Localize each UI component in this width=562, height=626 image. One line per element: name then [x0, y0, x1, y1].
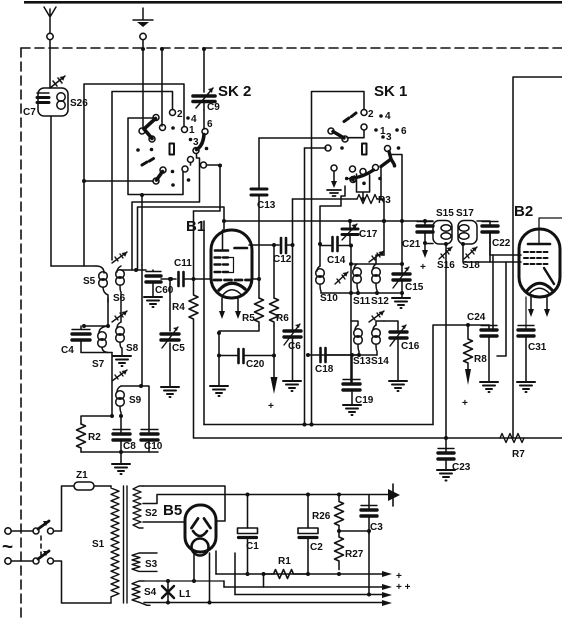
svg-text:S12: S12: [371, 296, 389, 307]
tube B1 envelope: [211, 230, 252, 298]
svg-text:R7: R7: [512, 449, 525, 460]
bottom rail R2/C8/C10: [81, 451, 158, 453]
wire long vertical down to R2/C8 node: [111, 353, 113, 417]
SK2 contact 1: [182, 127, 188, 133]
resistor R7: [500, 434, 524, 443]
switch gang dashed link: [40, 536, 42, 556]
wire S14 to C16: [384, 321, 398, 330]
B1 outer box bottom rail: [194, 437, 562, 439]
svg-text:2: 2: [177, 109, 183, 120]
capacitor C10: [141, 434, 158, 440]
ground under C23: [437, 470, 455, 481]
wire SK2 lower bus: [141, 195, 143, 265]
antenna coil box C7/S26: [38, 88, 68, 116]
wire S2 bottom to anode 2: [143, 521, 185, 523]
wire S6 top node to C60: [121, 269, 146, 271]
capacitor C7 plates: [37, 98, 49, 103]
wire S13 S14 tops: [351, 321, 384, 325]
B2 heater leads with arrows: [531, 297, 547, 310]
trimmer arrow C17: [342, 224, 357, 240]
trimmer arrow S18: [464, 247, 477, 259]
wire C11 to B1 grid: [184, 278, 212, 280]
secondary S3: [132, 553, 157, 571]
B2 diode plate diagonal: [544, 268, 554, 284]
svg-text:R5: R5: [242, 313, 255, 324]
B1 grids (dashed electrodes): [215, 258, 229, 273]
coil top rail S11 S12 C15: [351, 263, 402, 265]
svg-text:SK 2: SK 2: [218, 83, 251, 100]
antenna terminal: [47, 33, 53, 39]
svg-text:S26: S26: [70, 98, 88, 109]
svg-text:C12: C12: [273, 254, 292, 265]
trimmer capacitor C15: [401, 221, 403, 272]
SK1 contact 2: [361, 110, 367, 116]
ground under C8: [120, 452, 122, 464]
node: [218, 164, 222, 168]
B1 grid cap lead: [223, 221, 225, 230]
node S17 bottom: [461, 242, 465, 246]
wire SK1 top feed to contact 2: [312, 92, 365, 425]
svg-text:R2: R2: [88, 432, 101, 443]
resistor R1: [264, 570, 309, 579]
wire rail to C15: [377, 292, 402, 294]
wire R6 bottom to arrow: [273, 326, 275, 378]
resistor R5: [255, 298, 264, 326]
coil S10: [316, 266, 325, 293]
node C14 left: [318, 242, 322, 246]
secondary S2 (HT): [133, 486, 143, 528]
wire R26/R27 node to C3: [339, 530, 369, 532]
capacitor C60: [146, 276, 161, 282]
ground under C19: [343, 405, 361, 415]
B5 filament leads: [194, 553, 210, 603]
svg-text:B5: B5: [163, 502, 182, 519]
ground under C31: [517, 382, 535, 392]
B1 heater leads with arrows: [222, 298, 238, 312]
svg-text:S5: S5: [83, 276, 96, 287]
trimmer arrow above S14: [369, 311, 384, 322]
capacitor C20: [219, 355, 237, 357]
node: [106, 324, 110, 328]
svg-text:2: 2: [368, 109, 374, 120]
trimmer capacitor C16: [390, 332, 407, 338]
wire S10 feed: [319, 244, 321, 266]
svg-text:6: 6: [401, 126, 407, 137]
wire contact3 stub: [190, 163, 192, 166]
wire R3 right to rail and S12: [383, 199, 385, 255]
svg-text:+: +: [462, 398, 468, 409]
S13/S14 bottom rail: [321, 354, 377, 356]
SK1 left wiper: [333, 132, 344, 139]
coil S14: [372, 325, 381, 355]
resistor R26: [335, 495, 344, 532]
svg-text:C2: C2: [310, 542, 323, 553]
trimmer capacitor C5: [169, 279, 171, 386]
capacitor C8: [113, 434, 130, 440]
capacitor C31: [518, 330, 534, 336]
svg-text:S1: S1: [92, 539, 105, 550]
wire C22 bottom to B2: [490, 233, 521, 255]
ground under C60: [144, 297, 162, 307]
svg-text:S4: S4: [144, 587, 157, 598]
B2 grid dashes: [524, 252, 548, 264]
svg-text:R8: R8: [474, 354, 487, 365]
wire S2 top to anode 1: [143, 486, 225, 521]
node: [169, 277, 173, 281]
output stage box: [513, 77, 562, 438]
wire left vertical to lower wiper: [84, 180, 153, 182]
capacitor C12: [281, 238, 286, 253]
SK1 right wiper Y: [381, 152, 394, 167]
svg-text:S9: S9: [129, 395, 142, 406]
trimmer arrow S16: [439, 247, 452, 259]
node C17 bottom: [349, 244, 353, 248]
coil S8: [116, 322, 125, 355]
wire C4 top rail: [84, 325, 108, 327]
wire C20 left node down to ground: [218, 355, 220, 385]
wire switch to transformer top: [54, 486, 75, 531]
wire R5 top: [258, 279, 260, 298]
node + arrow under C21: [423, 241, 427, 245]
svg-text:Z1: Z1: [76, 470, 88, 481]
B2 anode bar: [528, 243, 550, 246]
B2 cathode lead to C31: [525, 297, 527, 329]
node: [192, 277, 196, 281]
ground under C15: [401, 293, 403, 297]
S10/S11 bottom rail: [321, 292, 377, 294]
node on dashed rail: [160, 47, 164, 51]
svg-text:C10: C10: [144, 441, 163, 452]
main HF rail: [224, 220, 425, 222]
svg-text:S13: S13: [353, 356, 371, 367]
trimmer arrow right of S10: [335, 272, 348, 284]
trimmer arrow above S9: [112, 370, 127, 381]
svg-text:+: +: [420, 262, 426, 273]
svg-text:C1: C1: [246, 541, 259, 552]
ground under C5: [161, 387, 179, 397]
SK1 contact dot 1: [374, 128, 378, 132]
node: [139, 384, 143, 388]
wire to SK2 wiper: [161, 49, 163, 126]
svg-text:C24: C24: [467, 312, 486, 323]
wire earth terminal to dashed rail: [142, 40, 144, 49]
svg-text:~: ~: [2, 537, 13, 558]
wire C7 box down to S5: [50, 116, 52, 266]
mains switch upper: [33, 528, 39, 534]
node: [82, 179, 86, 183]
wire C18 right: [326, 354, 360, 356]
B5 filament arc: [193, 531, 207, 536]
resistor R6: [270, 298, 279, 326]
SK2 wiper blade lower: [157, 172, 163, 181]
coil S9: [116, 386, 125, 416]
svg-text:S3: S3: [145, 559, 158, 570]
node on dashed rail: [202, 47, 206, 51]
B5 anode diagonals: [192, 519, 211, 529]
SK2 contact dot: [205, 147, 209, 151]
trimmer arrow above S12: [369, 251, 384, 262]
tube B2 envelope: [519, 229, 560, 297]
capacitor C11: [179, 272, 184, 286]
B1 inner screen loop: [229, 258, 234, 273]
wire R6 top: [273, 245, 275, 298]
SK1 contact dot 3: [381, 135, 385, 139]
SK2 wiper blade right: [197, 135, 205, 150]
svg-text:R4: R4: [172, 302, 185, 313]
SK2 contact dot: [171, 126, 175, 130]
coil S11: [353, 264, 362, 293]
wire SK1 left contact to bus: [305, 147, 327, 149]
wire S12 trimmer stub: [376, 255, 384, 264]
rail heater1: [235, 594, 382, 596]
svg-text:C23: C23: [452, 462, 471, 473]
capacitor C22: [482, 226, 498, 232]
SK1 lower wiper arc: [354, 170, 374, 178]
svg-text:SK 1: SK 1: [374, 83, 407, 100]
SK2 contact dot 4: [186, 116, 190, 120]
svg-text:C7: C7: [23, 107, 36, 118]
wire antenna to C7 box: [49, 40, 51, 88]
svg-text:C8: C8: [123, 441, 136, 452]
B1 cathode arc: [219, 283, 245, 290]
resistor R27: [335, 531, 344, 570]
capacitor C24: [488, 325, 490, 329]
ground under C16: [389, 381, 407, 391]
node R26/R27: [337, 529, 341, 533]
capacitor C17: [349, 221, 351, 228]
svg-text:6: 6: [207, 119, 213, 130]
wire terminal to switch: [11, 530, 33, 532]
capacitor C2 (electrolytic): [307, 495, 309, 529]
SK1 dashed wiper mark: [344, 113, 356, 122]
wire filament net to ++ rail: [223, 581, 225, 587]
wire contact to wiper: [347, 130, 364, 138]
svg-text:R6: R6: [276, 313, 289, 324]
svg-text:C17: C17: [359, 229, 378, 240]
B1 anode bars: [215, 248, 247, 251]
svg-text:C21: C21: [402, 239, 421, 250]
capacitor C21: [424, 221, 426, 225]
capacitor C19: [351, 355, 353, 383]
wire IF bottom to rail: [445, 244, 447, 438]
svg-text:C60: C60: [155, 285, 174, 296]
SK2 contact: [188, 157, 194, 163]
trimmer arrow through C9: [196, 88, 213, 108]
svg-text:R26: R26: [312, 511, 331, 522]
lamp L1 riser: [167, 581, 169, 603]
ground under C24: [480, 382, 498, 392]
svg-text:B2: B2: [514, 203, 533, 220]
coil S13: [354, 325, 363, 355]
svg-text:S7: S7: [92, 359, 105, 370]
SK1 contact right: [385, 146, 391, 152]
wire C13 top to SK1: [259, 137, 341, 139]
SK2 index key: [170, 144, 175, 155]
svg-text:S17: S17: [456, 208, 474, 219]
svg-text:C3: C3: [370, 522, 383, 533]
svg-text:+: +: [268, 401, 274, 412]
capacitor C14: [320, 245, 331, 247]
wire tap to heater1 rail: [234, 553, 236, 595]
IF transformer secondary S17: [458, 221, 477, 245]
svg-text:S14: S14: [371, 356, 389, 367]
wire switch to transformer bottom: [54, 561, 112, 603]
node C5 top: [168, 277, 172, 281]
svg-text:S8: S8: [126, 343, 139, 354]
rail heater2: [144, 602, 382, 604]
SK2 contact 6: [202, 129, 208, 135]
B2 cathode arc: [526, 283, 553, 292]
wire wiper to C15 column: [390, 155, 402, 222]
wire B1 grid line: [252, 278, 259, 280]
HT rail to arrow: [248, 494, 389, 496]
ground (aerial earth): [133, 8, 153, 27]
wire bus down to B1 box rail: [304, 148, 306, 425]
wire R5 bottom loop to C20 node: [219, 326, 259, 355]
SK2 contact dots lower: [171, 170, 175, 174]
coil S12: [372, 264, 381, 293]
coil S5: [51, 266, 108, 302]
wire SK2 outer loop to contact 2: [112, 92, 173, 261]
svg-text:C31: C31: [528, 342, 547, 353]
wire C3 down to rail3: [368, 531, 370, 595]
SK2 contact dots mid: [136, 148, 140, 152]
svg-text:+: +: [396, 571, 402, 582]
B5 filament circle: [192, 539, 209, 556]
fuse Z1: [74, 482, 94, 490]
svg-text:C4: C4: [61, 345, 74, 356]
capacitor C23: [445, 438, 447, 452]
arrow under R8: [465, 369, 471, 385]
transformer S1 primary winding: [111, 486, 119, 603]
B1 grid cap interior lead: [222, 230, 224, 249]
rail +: [216, 573, 382, 575]
wire wiper tail to bus: [132, 154, 200, 271]
node on dashed rail: [141, 47, 145, 51]
B1 stage outer box with resistor R4: [189, 211, 198, 438]
svg-text:C22: C22: [492, 238, 511, 249]
wire C12 to C6 net: [286, 244, 293, 246]
svg-text:R1: R1: [278, 556, 291, 567]
svg-text:S15: S15: [436, 208, 454, 219]
wire S17 top to C22: [477, 221, 490, 225]
svg-text:B1: B1: [186, 218, 205, 235]
SK2 wiper blade upper: [144, 119, 156, 139]
B5 cathode tap to + rail: [215, 551, 217, 574]
earth terminal: [140, 33, 146, 39]
resistor R2: [77, 424, 86, 452]
node R2/C8 rail left: [110, 414, 114, 418]
wire middle vertical C17 to C19: [350, 246, 352, 384]
SK1 contact lower-left with ground arrow: [331, 165, 337, 171]
trimmer capacitor C9: [193, 96, 215, 102]
SK1 contact dot 6: [395, 128, 399, 132]
svg-text:C9: C9: [207, 102, 220, 113]
wire S2 tap to HT rail: [143, 495, 248, 504]
node: [444, 436, 448, 440]
wire to SK2 wiper: [142, 49, 144, 129]
SK2 contact dot 3: [189, 138, 193, 142]
dashed chassis border top: [21, 47, 562, 49]
svg-text:C18: C18: [315, 364, 334, 375]
capacitor C1 (electrolytic): [247, 495, 249, 529]
svg-text:S10: S10: [320, 293, 338, 304]
svg-text:C6: C6: [288, 341, 301, 352]
svg-text:S11: S11: [353, 296, 371, 307]
wire node rail to R2: [81, 416, 112, 424]
B1 signal grid row to external: [214, 279, 252, 282]
HT arrow: [386, 489, 400, 501]
wire SK1 wiper bus down: [320, 186, 345, 244]
svg-text:S2: S2: [145, 508, 158, 519]
svg-text:+ +: + +: [396, 582, 411, 593]
SK2 contact: [182, 166, 188, 172]
svg-text:C14: C14: [327, 255, 346, 266]
dashed chassis border left: [20, 48, 22, 620]
wire SK2 bus to right: [138, 207, 225, 270]
SK2 contact to C13 feed: [201, 162, 207, 168]
capacitor C4: [72, 334, 90, 340]
SK2 dashed wiper mark: [142, 159, 154, 166]
svg-text:C20: C20: [246, 359, 265, 370]
wire left loop to contact 1: [84, 84, 184, 266]
wire S17 bottom to B2 grid: [463, 244, 521, 262]
SK1 contact dot: [340, 146, 344, 150]
coil S26: [57, 93, 65, 109]
ground under C20 rail: [210, 386, 228, 396]
svg-text:4: 4: [385, 111, 391, 122]
page edge bar: [24, 1, 562, 4]
wire S4 top net: [144, 580, 224, 582]
lamp L1 cross: [162, 586, 174, 598]
svg-text:L1: L1: [179, 589, 191, 600]
wire S5 to S7: [107, 298, 109, 326]
capacitor C3: [368, 495, 370, 510]
mains terminal lower: [5, 558, 11, 564]
secondary S4: [132, 581, 150, 605]
node: [140, 193, 144, 197]
switch SK2 contact 2: [170, 110, 176, 116]
B2 anode lead: [539, 218, 562, 244]
transformer core: [124, 486, 128, 603]
svg-text:C13: C13: [257, 200, 276, 211]
B1 inner box bottom rail: [204, 424, 433, 426]
SK1 contact left: [325, 145, 331, 151]
mains switch lower: [33, 558, 39, 564]
trimmer capacitor C6: [292, 199, 294, 329]
svg-text:3: 3: [386, 132, 392, 143]
node: [134, 268, 138, 272]
svg-text:R27: R27: [345, 549, 364, 560]
wire S7/C4 bottom rail to long vertical: [81, 352, 112, 354]
ground under C6: [283, 381, 301, 391]
coil S7: [98, 326, 108, 353]
wire to C9: [203, 49, 205, 92]
resistor R3: [357, 195, 377, 204]
antenna: [44, 7, 56, 33]
B1 stage inner box left: [203, 221, 205, 425]
mains terminal upper: [5, 528, 11, 534]
trimmer arrow on C7: [50, 76, 65, 88]
wire C9 to contact 6: [203, 110, 205, 129]
tube B5 envelope: [185, 505, 216, 552]
svg-text:C15: C15: [405, 282, 424, 293]
trimmer arrow above S6: [112, 252, 127, 263]
wire SK1 lower contact loop: [357, 174, 370, 192]
IF transformer primary S15: [425, 221, 452, 245]
capacitor C18: [308, 354, 319, 356]
ground under S8: [113, 356, 131, 366]
